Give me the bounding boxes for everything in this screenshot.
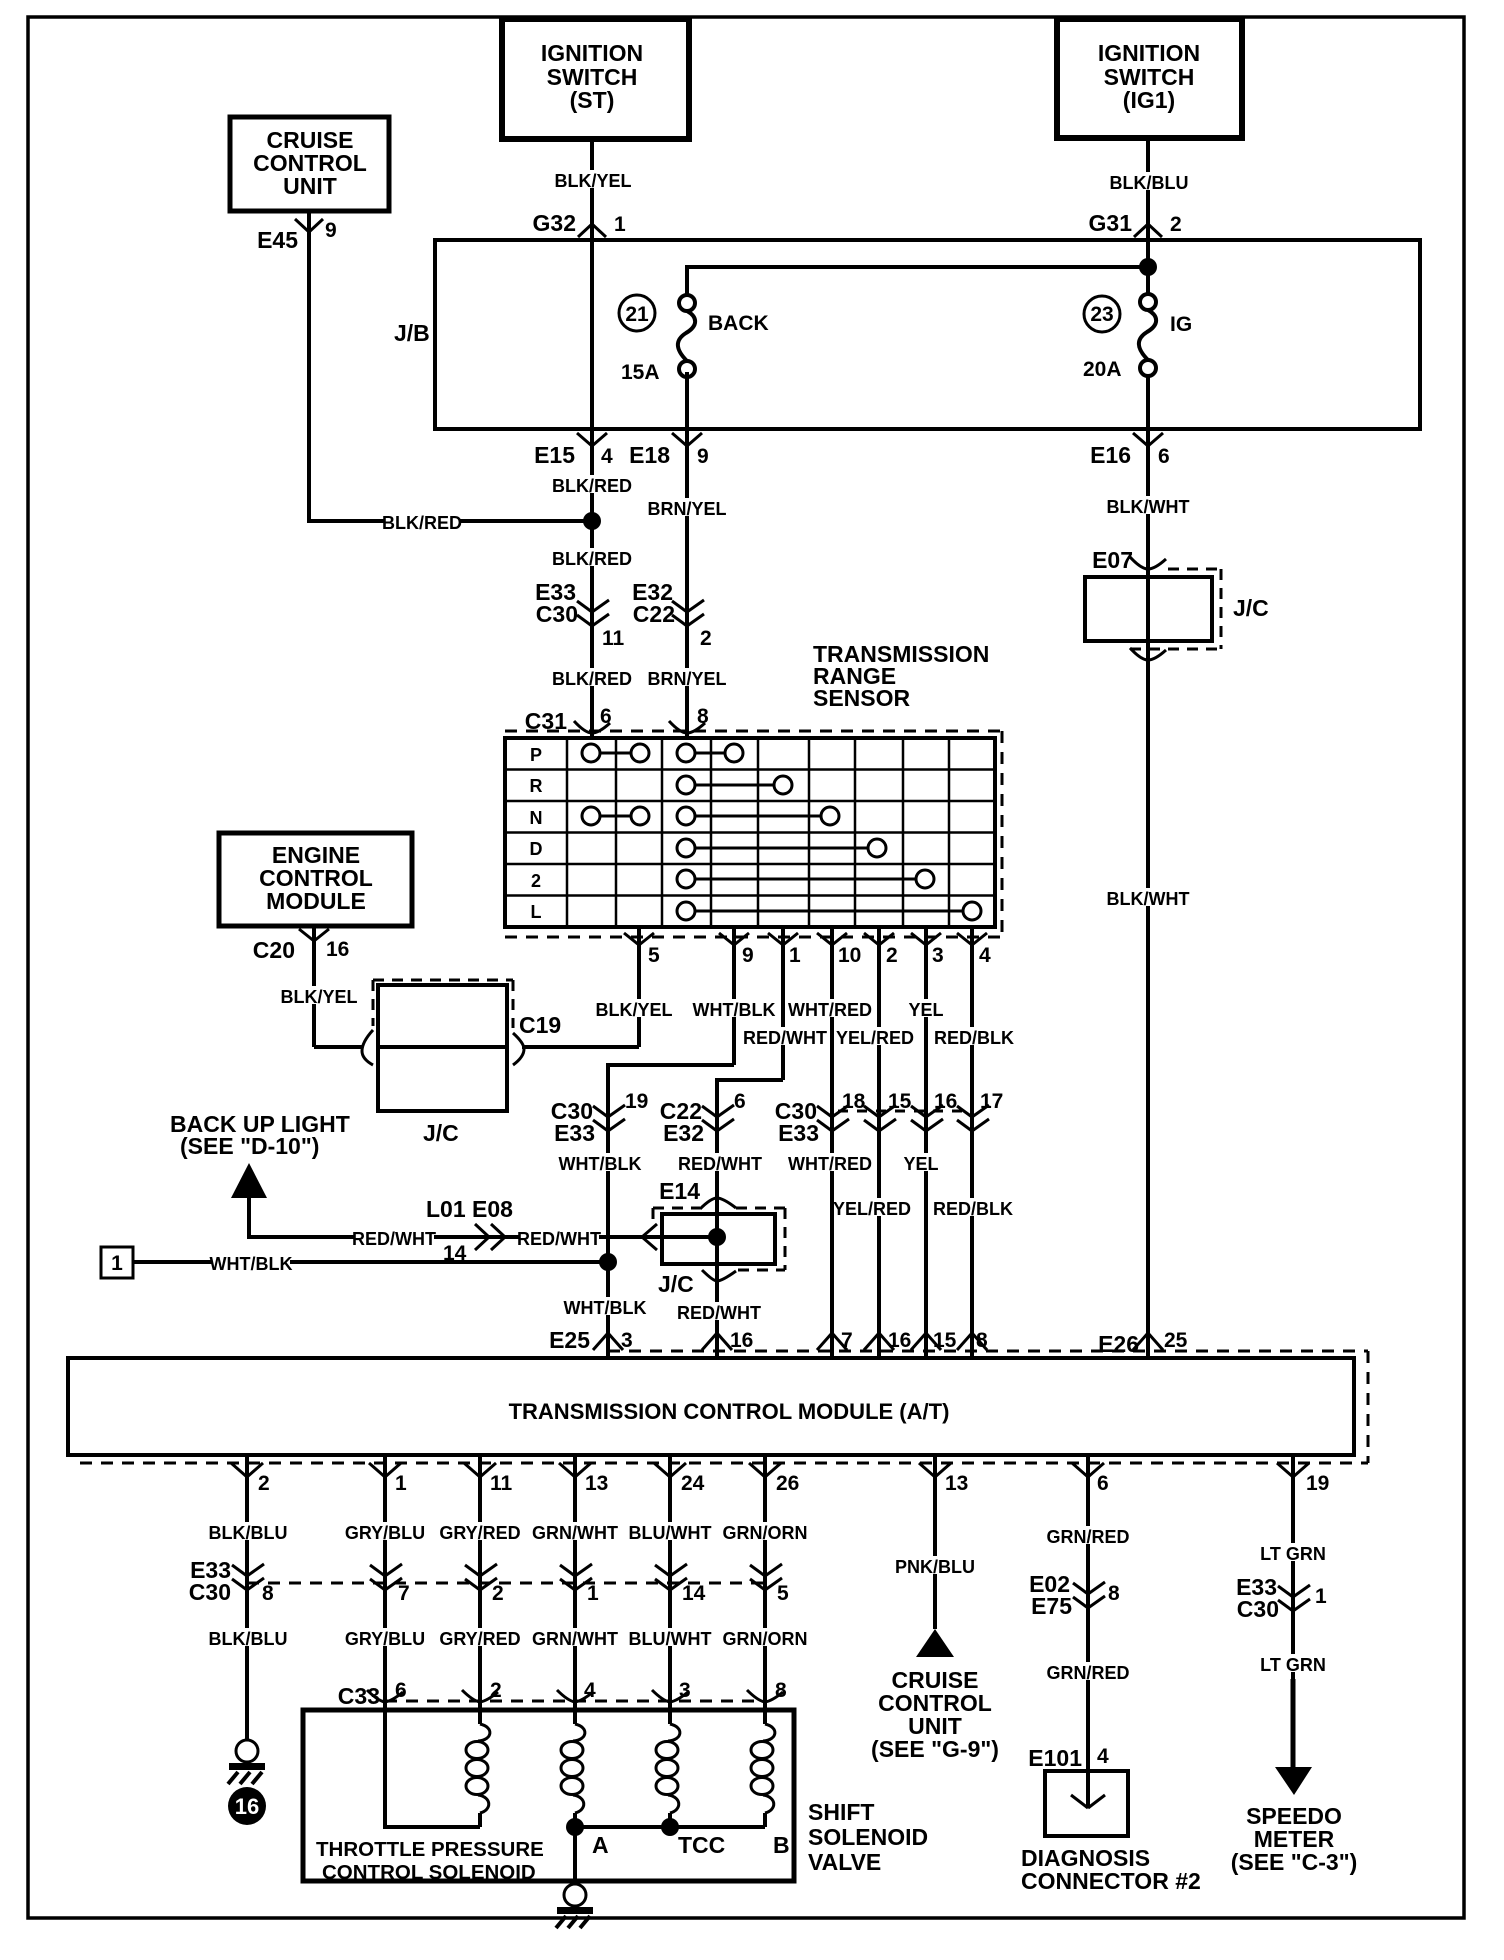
label BLK/YEL on pin5 wire	[595, 999, 672, 1020]
svg-text:4: 4	[584, 1679, 596, 1702]
svg-text:GRN/ORN: GRN/ORN	[723, 1523, 808, 1543]
svg-text:13: 13	[585, 1472, 608, 1495]
svg-text:THROTTLE PRESSURE: THROTTLE PRESSURE	[316, 1838, 544, 1861]
label BRN/YEL second	[647, 668, 726, 689]
svg-text:BACK: BACK	[708, 312, 769, 335]
label GRY/BLU row2	[345, 1628, 425, 1649]
sensor pin 9	[719, 927, 754, 1065]
label BLK/RED below node	[552, 548, 632, 569]
svg-text:8: 8	[976, 1329, 988, 1352]
svg-text:E33: E33	[778, 1120, 819, 1146]
TCM pin 24 wire BLU/WHT	[654, 1454, 705, 1710]
svg-text:15: 15	[933, 1329, 957, 1352]
svg-text:C30: C30	[189, 1579, 231, 1605]
wire speedometer thick	[1291, 1679, 1296, 1770]
svg-text:BLU/WHT: BLU/WHT	[629, 1523, 712, 1543]
svg-text:23: 23	[1090, 303, 1113, 326]
connector G32 pin 1	[533, 210, 626, 237]
connector E15 pin 4	[534, 433, 613, 468]
svg-text:BLK/RED: BLK/RED	[552, 549, 632, 569]
label BLU/WHT row2	[629, 1628, 712, 1649]
label WHT/BLK on node1 wire	[210, 1253, 293, 1274]
connector C31 pin 6	[525, 705, 612, 738]
connector E33/C30 pin 1	[1236, 1574, 1327, 1622]
label YEL pin3	[906, 999, 946, 1020]
wire solenoid common bus	[575, 1825, 765, 1829]
transmission range sensor grid	[505, 738, 995, 927]
wire IG fuse to J/B bottom	[1146, 377, 1150, 429]
wire ST feed through J/B	[590, 240, 594, 429]
svg-text:E45: E45	[257, 227, 298, 253]
svg-text:R: R	[530, 776, 543, 796]
svg-text:2: 2	[492, 1582, 504, 1605]
svg-text:BLK/YEL: BLK/YEL	[595, 1000, 672, 1020]
connector E16 pin 6	[1090, 433, 1170, 468]
svg-text:WHT/BLK: WHT/BLK	[210, 1254, 293, 1274]
connector C22/E32 pin 6	[660, 1090, 746, 1146]
label YEL/RED pin2	[836, 1027, 914, 1048]
svg-text:RED/WHT: RED/WHT	[352, 1229, 436, 1249]
svg-text:RED/BLK: RED/BLK	[933, 1199, 1013, 1219]
svg-text:(SEE "G-9"): (SEE "G-9")	[871, 1736, 999, 1762]
sensor contacts row N	[582, 807, 839, 825]
TCM pin 13 wire GRN/WHT	[559, 1454, 608, 1710]
svg-text:2: 2	[258, 1472, 270, 1495]
TCM pin 11 wire GRY/RED	[464, 1454, 513, 1710]
label RED/BLK pin4	[934, 1027, 1014, 1048]
svg-text:BLK/BLU: BLK/BLU	[209, 1629, 288, 1649]
svg-text:E14: E14	[659, 1178, 700, 1204]
svg-text:SHIFT: SHIFT	[808, 1799, 874, 1825]
connector C30/E33 pin 18	[775, 1090, 866, 1146]
label RED/WHT pin1	[743, 1027, 827, 1048]
wire pin 1 jog left	[717, 1080, 783, 1356]
wire solenoid ground tap	[573, 1827, 577, 1884]
svg-text:24: 24	[681, 1472, 705, 1495]
connector E45 pin 9	[257, 219, 337, 253]
label WHT/RED below 18	[788, 1153, 872, 1174]
svg-text:G32: G32	[533, 210, 576, 236]
connector pin 15	[911, 1329, 957, 1352]
svg-text:4: 4	[1097, 1745, 1109, 1768]
connector pin 5 row2	[750, 1564, 789, 1605]
svg-text:2: 2	[490, 1679, 502, 1702]
ground solenoid	[556, 1884, 593, 1928]
svg-text:YEL: YEL	[903, 1154, 938, 1174]
svg-text:RED/WHT: RED/WHT	[677, 1303, 761, 1323]
connector E32/C22 pin 2	[632, 579, 712, 650]
ignition switch (IG1) box	[1057, 19, 1242, 138]
label BLK/WHT upper	[1107, 496, 1190, 517]
svg-text:J/B: J/B	[394, 320, 430, 346]
svg-text:E75: E75	[1031, 1593, 1072, 1619]
svg-text:2: 2	[700, 627, 712, 650]
svg-text:15: 15	[888, 1090, 912, 1113]
node BLK/RED junction	[583, 512, 601, 530]
svg-text:RED/WHT: RED/WHT	[743, 1028, 827, 1048]
wire E16 BLK/WHT down to E26	[1146, 429, 1150, 1356]
svg-text:TRANSMISSION CONTROL MODULE (A: TRANSMISSION CONTROL MODULE (A/T)	[509, 1399, 950, 1424]
coil throttle pressure control solenoid	[466, 1710, 490, 1827]
label GRY/RED row1	[439, 1522, 520, 1543]
svg-text:C30: C30	[1237, 1596, 1279, 1622]
TCM pin 1 wire GRY/BLU	[369, 1454, 407, 1710]
label GRN/RED upper	[1046, 1526, 1129, 1547]
connector row E33/C30 labels	[189, 1557, 231, 1605]
svg-text:BLK/RED: BLK/RED	[552, 476, 632, 496]
node junction IG1 feed	[1139, 258, 1157, 276]
ground BLK/BLU circle	[228, 1740, 265, 1784]
label BLK/WHT lower	[1107, 888, 1190, 909]
connector C33 pin 4	[557, 1679, 596, 1702]
svg-text:11: 11	[490, 1472, 513, 1495]
wire cruise E45 down and over to BLK/RED node	[309, 211, 592, 521]
label WHT/RED pin10	[788, 999, 872, 1020]
svg-text:1: 1	[587, 1582, 599, 1605]
label BLK/RED on cruise feed	[382, 512, 462, 533]
svg-text:P: P	[530, 745, 542, 765]
wire C20 to C19 junction	[314, 1045, 363, 1049]
node TCC	[661, 1818, 679, 1836]
ignition switch (ST) box	[502, 19, 689, 139]
coil solenoid B	[751, 1710, 775, 1827]
svg-text:6: 6	[734, 1090, 746, 1113]
svg-text:25: 25	[1164, 1329, 1188, 1352]
svg-text:1: 1	[789, 944, 801, 967]
sensor contacts row P	[582, 744, 743, 762]
svg-text:IGNITION: IGNITION	[541, 40, 643, 66]
connector E33/C30 pin 11	[535, 579, 624, 650]
label RED/BLK below 17	[933, 1198, 1013, 1219]
label RED/WHT above E25	[677, 1302, 761, 1323]
label RED/WHT right of L01	[517, 1228, 601, 1249]
node A	[566, 1818, 584, 1836]
svg-text:WHT/BLK: WHT/BLK	[564, 1298, 647, 1318]
dashed link chevron group 18-15-16-17	[838, 1110, 966, 1113]
label shift solenoid valve	[808, 1799, 928, 1875]
svg-text:GRN/WHT: GRN/WHT	[532, 1629, 618, 1649]
svg-text:C22: C22	[633, 601, 675, 627]
svg-text:J/C: J/C	[658, 1271, 694, 1297]
label diagnosis connector #2	[1021, 1845, 1201, 1894]
svg-text:G31: G31	[1089, 210, 1133, 236]
svg-text:YEL/RED: YEL/RED	[836, 1028, 914, 1048]
svg-text:YEL/RED: YEL/RED	[833, 1199, 911, 1219]
svg-text:IG: IG	[1170, 313, 1192, 336]
svg-text:UNIT: UNIT	[283, 173, 337, 199]
connector C31 pin 8	[669, 705, 709, 738]
svg-text:(SEE "C-3"): (SEE "C-3")	[1231, 1849, 1358, 1875]
svg-text:E33: E33	[554, 1120, 595, 1146]
svg-text:16: 16	[934, 1090, 957, 1113]
svg-text:E32: E32	[663, 1120, 704, 1146]
svg-text:3: 3	[932, 944, 944, 967]
sensor pin 4	[957, 927, 991, 1356]
label BLK/YEL	[554, 170, 631, 191]
svg-text:17: 17	[980, 1090, 1003, 1113]
label GRN/RED lower	[1046, 1662, 1129, 1683]
svg-text:2: 2	[886, 944, 898, 967]
wire ignition IG1 to J/B	[1146, 138, 1150, 240]
svg-text:1: 1	[1315, 1585, 1327, 1608]
transmission control module box	[68, 1358, 1354, 1455]
svg-text:2: 2	[1170, 213, 1182, 236]
svg-text:E26: E26	[1098, 1331, 1139, 1357]
svg-text:16: 16	[730, 1329, 753, 1352]
svg-text:N: N	[530, 808, 543, 828]
sensor pin 3	[911, 927, 944, 1356]
connector pin 7	[817, 1329, 853, 1352]
sensor contacts row 2	[677, 870, 934, 888]
connector pin 8	[957, 1329, 988, 1352]
svg-text:CONNECTOR #2: CONNECTOR #2	[1021, 1868, 1201, 1894]
connector C33 pin 6	[338, 1679, 407, 1709]
sensor pin 10	[817, 927, 861, 1356]
svg-text:7: 7	[841, 1329, 853, 1352]
label GRN/ORN row2	[723, 1628, 808, 1649]
back up light label	[170, 1111, 350, 1159]
svg-text:PNK/BLU: PNK/BLU	[895, 1557, 975, 1577]
svg-text:GRN/WHT: GRN/WHT	[532, 1523, 618, 1543]
connector pin 14 row2	[655, 1564, 706, 1605]
connector pin 7 row2	[370, 1564, 410, 1605]
TCM pin 13b wire PNK/BLU	[919, 1454, 968, 1629]
svg-text:5: 5	[777, 1582, 789, 1605]
svg-text:L01 E08: L01 E08	[426, 1196, 513, 1222]
svg-text:VALVE: VALVE	[808, 1849, 881, 1875]
wire IG1 feed through J/B	[1146, 240, 1150, 302]
connector E26 pin 25	[1098, 1329, 1188, 1357]
svg-text:GRN/RED: GRN/RED	[1046, 1527, 1129, 1547]
svg-text:BLK/YEL: BLK/YEL	[280, 987, 357, 1007]
connector C30/E33 pin 19	[551, 1090, 649, 1146]
engine control module box	[219, 833, 412, 926]
svg-text:1: 1	[614, 213, 626, 236]
svg-text:J/C: J/C	[1233, 595, 1269, 621]
connector C33 pin 2	[462, 1679, 502, 1702]
svg-text:WHT/RED: WHT/RED	[788, 1000, 872, 1020]
junction connector C19 J/C	[362, 980, 561, 1146]
svg-text:16: 16	[888, 1329, 911, 1352]
svg-text:8: 8	[697, 705, 709, 728]
svg-text:E07: E07	[1092, 547, 1133, 573]
svg-text:B: B	[773, 1832, 790, 1858]
svg-text:BRN/YEL: BRN/YEL	[647, 499, 726, 519]
junction connector E07 J/C	[1085, 547, 1269, 660]
connector E18 pin 9	[629, 433, 709, 468]
TCM pin 2 wire BLK/BLU	[231, 1454, 270, 1740]
coil solenoid TCC	[656, 1710, 680, 1827]
coil solenoid A	[561, 1710, 585, 1827]
svg-text:SOLENOID: SOLENOID	[808, 1824, 928, 1850]
junction connector E14 J/C	[642, 1178, 785, 1297]
wire back up light to E14	[249, 1198, 717, 1237]
label LT GRN lower	[1260, 1654, 1326, 1675]
svg-text:E101: E101	[1028, 1745, 1082, 1771]
svg-text:GRN/ORN: GRN/ORN	[723, 1629, 808, 1649]
svg-text:CONTROL SOLENOID: CONTROL SOLENOID	[322, 1861, 536, 1884]
svg-text:9: 9	[697, 445, 709, 468]
label YEL/RED below 15	[833, 1198, 911, 1219]
svg-text:5: 5	[648, 944, 660, 967]
svg-text:YEL: YEL	[908, 1000, 943, 1020]
sensor contacts row R	[677, 776, 792, 794]
svg-text:BLK/BLU: BLK/BLU	[1110, 173, 1189, 193]
label GRN/WHT row1	[532, 1522, 618, 1543]
svg-text:RED/WHT: RED/WHT	[517, 1229, 601, 1249]
svg-text:11: 11	[602, 627, 625, 650]
svg-text:18: 18	[842, 1090, 866, 1113]
svg-text:16: 16	[326, 938, 349, 961]
svg-text:(SEE "D-10"): (SEE "D-10")	[180, 1133, 319, 1159]
svg-text:1: 1	[111, 1252, 123, 1275]
svg-text:GRY/RED: GRY/RED	[439, 1523, 520, 1543]
svg-text:8: 8	[775, 1679, 787, 1702]
svg-text:BLK/BLU: BLK/BLU	[209, 1523, 288, 1543]
wire E18 BRN/YEL down	[685, 429, 689, 738]
svg-text:19: 19	[1306, 1472, 1329, 1495]
svg-text:WHT/BLK: WHT/BLK	[559, 1154, 642, 1174]
svg-text:BRN/YEL: BRN/YEL	[647, 669, 726, 689]
svg-text:GRY/BLU: GRY/BLU	[345, 1629, 425, 1649]
svg-text:D: D	[530, 839, 543, 859]
svg-text:A: A	[592, 1832, 609, 1858]
label LT GRN upper	[1260, 1543, 1326, 1564]
label BLK/BLU	[1110, 172, 1189, 193]
connector pin 17	[957, 1090, 1003, 1131]
svg-text:(ST): (ST)	[570, 87, 615, 113]
svg-text:LT GRN: LT GRN	[1260, 1655, 1326, 1675]
svg-text:RED/WHT: RED/WHT	[678, 1154, 762, 1174]
label GRN/ORN row1	[723, 1522, 808, 1543]
svg-text:16: 16	[235, 1794, 259, 1819]
label WHT/BLK above E25	[564, 1297, 647, 1318]
connector C33 row dashed link	[385, 1700, 765, 1703]
svg-text:MODULE: MODULE	[266, 888, 366, 914]
label WHT/BLK pin9	[693, 999, 776, 1020]
svg-text:WHT/BLK: WHT/BLK	[693, 1000, 776, 1020]
wire ignition ST to J/B	[590, 139, 594, 240]
label cruise control unit see G-9	[871, 1667, 999, 1762]
TCM pin 6 wire GRN/RED	[1072, 1454, 1109, 1771]
fuse 23 IG 20A	[1083, 294, 1192, 381]
svg-text:4: 4	[601, 445, 613, 468]
label RED/WHT below 6	[678, 1153, 762, 1174]
label BLK/BLU row2	[209, 1628, 288, 1649]
wire node 1 to WHT/BLK	[133, 1260, 608, 1264]
label GRY/RED row2	[439, 1628, 520, 1649]
connector pin 15	[864, 1090, 912, 1131]
svg-text:E15: E15	[534, 442, 575, 468]
TCM pin 26 wire GRN/ORN	[749, 1454, 799, 1710]
connector pin 16	[911, 1090, 957, 1131]
TCM pin 19 wire LT GRN	[1277, 1454, 1329, 1679]
svg-text:C33: C33	[338, 1683, 380, 1709]
label speedometer see C-3	[1231, 1803, 1358, 1875]
svg-text:1: 1	[395, 1472, 407, 1495]
svg-text:21: 21	[625, 303, 649, 326]
svg-text:WHT/RED: WHT/RED	[788, 1154, 872, 1174]
svg-text:(IG1): (IG1)	[1123, 87, 1175, 113]
fuse 21 BACK 15A	[619, 295, 769, 384]
svg-text:7: 7	[398, 1582, 410, 1605]
arrow cruise control unit	[916, 1629, 954, 1657]
wire J/B internal feed to BACK fuse	[687, 267, 1148, 303]
svg-text:8: 8	[262, 1582, 274, 1605]
transmission range sensor label	[813, 641, 989, 711]
svg-text:9: 9	[325, 219, 337, 242]
svg-text:BLK/RED: BLK/RED	[382, 513, 462, 533]
svg-text:E16: E16	[1090, 442, 1131, 468]
ground id badge 16	[228, 1787, 266, 1825]
connector C33 pin 3	[652, 1679, 691, 1702]
sensor contacts row L	[677, 902, 981, 920]
svg-text:6: 6	[1097, 1472, 1109, 1495]
svg-text:BLK/WHT: BLK/WHT	[1107, 889, 1190, 909]
svg-text:13: 13	[945, 1472, 968, 1495]
sensor contacts row D	[677, 839, 886, 857]
wire E15 BLK/RED down	[590, 429, 594, 738]
cruise control unit box	[230, 117, 389, 211]
label BLK/RED third	[552, 668, 632, 689]
label BLK/BLU row1	[209, 1522, 288, 1543]
wire C19 to sensor pin 5	[522, 1045, 639, 1049]
sensor pin 5	[624, 927, 660, 1047]
connector C33 pin 8	[747, 1679, 787, 1702]
connector pin 2 row2	[465, 1564, 504, 1605]
svg-text:4: 4	[979, 944, 991, 967]
wire pin 9 jog left	[608, 1065, 734, 1356]
transmission range sensor dashed outline	[505, 731, 1002, 937]
back up light arrow	[231, 1163, 267, 1198]
connector pin 1 row2	[560, 1564, 599, 1605]
node junction WHT/BLK	[599, 1253, 617, 1271]
svg-text:26: 26	[776, 1472, 799, 1495]
svg-text:LT GRN: LT GRN	[1260, 1544, 1326, 1564]
svg-text:14: 14	[682, 1582, 706, 1605]
connector pin 16b	[864, 1329, 911, 1352]
label GRY/BLU row1	[345, 1522, 425, 1543]
label GRN/WHT row2	[532, 1628, 618, 1649]
connector E25 pin 3	[549, 1327, 633, 1353]
connector E101 pin 4 diagnosis connector box	[1028, 1745, 1128, 1836]
svg-text:GRY/BLU: GRY/BLU	[345, 1523, 425, 1543]
svg-text:3: 3	[621, 1329, 633, 1352]
wire BACK fuse to J/B bottom	[685, 372, 689, 429]
connector E33/C30 pin 8	[232, 1564, 274, 1605]
svg-text:BLK/RED: BLK/RED	[552, 669, 632, 689]
wire pin1 GRY/BLU inside box	[385, 1710, 480, 1827]
J/B junction block box	[435, 240, 1420, 429]
svg-text:6: 6	[395, 1679, 407, 1702]
svg-text:IGNITION: IGNITION	[1098, 40, 1200, 66]
label BLU/WHT row1	[629, 1522, 712, 1543]
svg-text:J/C: J/C	[423, 1120, 459, 1146]
svg-text:6: 6	[1158, 445, 1170, 468]
svg-text:2: 2	[531, 871, 541, 891]
transmission control module dashed outline	[80, 1351, 1368, 1463]
svg-text:C30: C30	[536, 601, 578, 627]
label WHT/BLK below 19	[559, 1153, 642, 1174]
solenoid box	[303, 1710, 794, 1881]
svg-text:9: 9	[742, 944, 754, 967]
svg-text:SENSOR: SENSOR	[813, 685, 911, 711]
svg-text:8: 8	[1108, 1582, 1120, 1605]
connector G31 pin 2	[1089, 210, 1182, 237]
label BRN/YEL	[647, 498, 726, 519]
svg-text:19: 19	[625, 1090, 648, 1113]
svg-text:C19: C19	[519, 1012, 561, 1038]
